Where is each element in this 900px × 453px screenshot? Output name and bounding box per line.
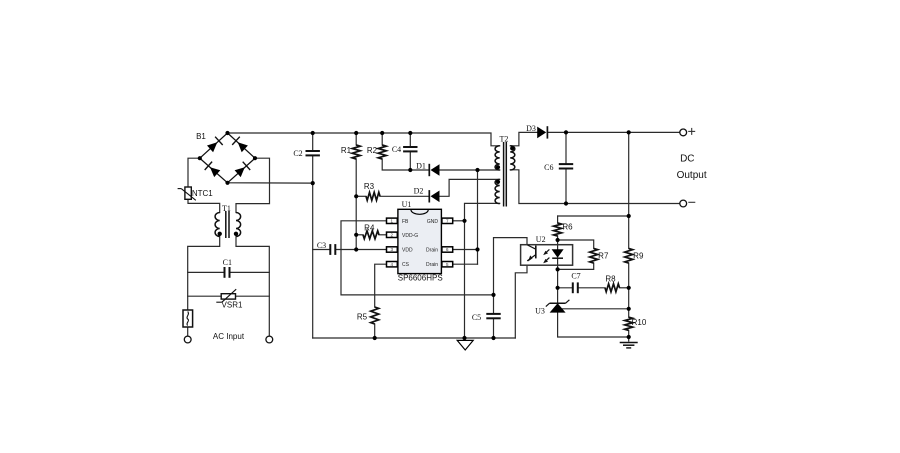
node xyxy=(462,336,466,340)
node xyxy=(311,131,315,135)
transformer T1 xyxy=(215,204,240,238)
wire xyxy=(628,330,630,341)
svg-text:T1: T1 xyxy=(222,204,231,213)
node xyxy=(380,131,384,135)
resistor R3 xyxy=(364,182,380,200)
node xyxy=(564,130,568,134)
wire xyxy=(558,263,594,269)
wire xyxy=(375,264,387,307)
terminal - xyxy=(680,200,687,207)
svg-text:CS: CS xyxy=(402,262,410,268)
resistor R1 xyxy=(341,145,360,159)
wire xyxy=(557,216,559,223)
wire xyxy=(465,203,500,338)
resistor R2 xyxy=(367,145,386,159)
wire xyxy=(188,295,222,297)
svg-text:C2: C2 xyxy=(293,149,302,158)
capacitor C7 xyxy=(571,272,580,294)
capacitor C4 xyxy=(392,145,418,154)
wire xyxy=(409,133,411,147)
terminal AC L xyxy=(184,336,191,343)
diode D1 xyxy=(416,162,439,177)
wire xyxy=(231,271,270,273)
resistor R8 xyxy=(605,275,620,292)
wire xyxy=(628,132,630,248)
wire xyxy=(356,234,363,236)
node xyxy=(627,307,631,311)
node xyxy=(408,131,412,135)
wire xyxy=(558,287,573,289)
wire xyxy=(188,199,220,212)
wire xyxy=(188,158,200,187)
svg-text:VSR1: VSR1 xyxy=(222,301,243,310)
wire xyxy=(515,265,527,338)
ground (secondary) xyxy=(620,343,638,348)
wire xyxy=(380,195,429,197)
minus sign xyxy=(688,201,695,203)
node xyxy=(354,194,358,198)
svg-text:C3: C3 xyxy=(317,241,326,250)
node xyxy=(556,238,560,242)
svg-text:R2: R2 xyxy=(367,146,378,155)
wire xyxy=(510,132,538,145)
svg-text:R9: R9 xyxy=(633,252,644,261)
shunt regulator U3 xyxy=(535,300,569,316)
wire xyxy=(557,258,559,303)
wire xyxy=(335,249,387,251)
svg-text:SP6606HPS: SP6606HPS xyxy=(398,273,443,282)
node xyxy=(556,267,560,271)
svg-text:U1: U1 xyxy=(402,200,412,209)
svg-text:AC Input: AC Input xyxy=(213,332,245,341)
svg-text:Output: Output xyxy=(677,170,707,181)
node xyxy=(311,181,315,185)
svg-text:VDD: VDD xyxy=(402,248,413,254)
wire xyxy=(236,295,270,297)
node xyxy=(475,168,479,172)
wire xyxy=(558,215,629,217)
capacitor C2 xyxy=(293,149,320,158)
wire xyxy=(228,133,500,146)
wire xyxy=(453,263,478,265)
wire xyxy=(440,169,500,171)
node xyxy=(491,336,495,340)
node xyxy=(475,247,479,251)
resistor R7 xyxy=(590,248,609,263)
ground (primary) xyxy=(457,338,473,350)
wire xyxy=(493,318,495,338)
wire xyxy=(228,182,313,184)
svg-text:R1: R1 xyxy=(341,146,352,155)
wire xyxy=(440,179,500,196)
wire xyxy=(494,238,528,295)
diode D2 xyxy=(414,187,440,203)
wire xyxy=(313,249,331,251)
thermistor NTC1 xyxy=(178,187,214,200)
node xyxy=(462,219,466,223)
node xyxy=(627,335,631,339)
terminal + xyxy=(680,129,687,136)
wire xyxy=(355,159,357,250)
svg-text:C7: C7 xyxy=(571,272,580,281)
wire xyxy=(563,308,629,310)
wire xyxy=(188,237,220,311)
svg-text:U3: U3 xyxy=(535,307,545,316)
node xyxy=(627,214,631,218)
wire xyxy=(493,295,495,314)
wire xyxy=(578,287,605,289)
svg-text:D1: D1 xyxy=(416,162,426,171)
svg-text:FB: FB xyxy=(402,219,409,225)
resistor R9 xyxy=(625,248,644,263)
wire xyxy=(236,158,270,212)
svg-text:R8: R8 xyxy=(605,275,616,284)
svg-text:C4: C4 xyxy=(392,145,401,154)
wire xyxy=(547,131,679,133)
terminal AC R xyxy=(266,336,273,343)
wire xyxy=(313,337,516,339)
node xyxy=(354,131,358,135)
svg-text:NTC1: NTC1 xyxy=(192,189,213,198)
svg-text:R7: R7 xyxy=(598,252,609,261)
capacitor C5 xyxy=(472,313,501,322)
wire xyxy=(565,132,567,164)
resistor R4 xyxy=(363,224,379,239)
capacitor C6 xyxy=(544,163,573,172)
wire xyxy=(188,271,225,273)
svg-text:C5: C5 xyxy=(472,313,481,322)
wire xyxy=(341,221,494,295)
svg-text:R6: R6 xyxy=(562,223,573,232)
wire xyxy=(236,237,269,337)
wire xyxy=(187,327,189,336)
node xyxy=(373,336,377,340)
varistor VSR1 xyxy=(216,289,243,309)
svg-text:D3: D3 xyxy=(526,124,536,133)
diode D3 xyxy=(526,124,547,139)
svg-text:C1: C1 xyxy=(223,258,232,267)
svg-text:D2: D2 xyxy=(414,187,424,196)
capacitor C3 xyxy=(317,241,335,255)
node xyxy=(556,286,560,290)
node xyxy=(627,286,631,290)
node xyxy=(354,247,358,251)
capacitor C1 xyxy=(223,258,232,278)
svg-text:R4: R4 xyxy=(364,224,375,233)
fuse xyxy=(183,310,193,327)
resistor R6 xyxy=(554,223,574,237)
svg-text:DC: DC xyxy=(680,154,694,165)
wire xyxy=(374,324,376,338)
node xyxy=(354,233,358,237)
svg-text:GND: GND xyxy=(427,219,439,225)
wire xyxy=(453,220,465,222)
wire xyxy=(558,313,629,337)
wire xyxy=(312,133,314,151)
wire xyxy=(565,169,567,204)
wire xyxy=(510,170,679,204)
node xyxy=(627,130,631,134)
resistor R5 xyxy=(357,307,379,324)
wire xyxy=(620,287,629,289)
node xyxy=(408,168,412,172)
node xyxy=(491,293,495,297)
plus sign xyxy=(688,128,695,135)
wire xyxy=(312,155,314,338)
wire xyxy=(628,263,630,317)
wire xyxy=(558,240,594,248)
svg-text:VDD-G: VDD-G xyxy=(402,233,418,239)
svg-text:R5: R5 xyxy=(357,313,368,322)
op-amp U1 SP6606HPS xyxy=(387,200,453,282)
label DC Output xyxy=(677,154,707,182)
transformer T2 xyxy=(495,135,515,207)
svg-text:B1: B1 xyxy=(196,132,206,141)
svg-text:Drain: Drain xyxy=(426,262,438,268)
wire xyxy=(557,236,559,249)
wire xyxy=(477,170,479,264)
wire xyxy=(409,151,411,170)
wire xyxy=(381,133,383,145)
wire xyxy=(382,159,429,170)
wire xyxy=(356,195,366,197)
svg-text:R3: R3 xyxy=(364,182,375,191)
wire xyxy=(453,249,478,251)
svg-text:R10: R10 xyxy=(632,318,647,327)
wire xyxy=(355,133,357,145)
node xyxy=(564,201,568,205)
bridge rectifier B1 xyxy=(196,131,257,185)
wire xyxy=(379,234,387,236)
svg-text:C6: C6 xyxy=(544,163,553,172)
svg-text:Drain: Drain xyxy=(426,248,438,254)
svg-text:U2: U2 xyxy=(536,235,546,244)
optocoupler U2 xyxy=(521,235,573,265)
resistor R10 xyxy=(625,317,647,330)
svg-text:T2: T2 xyxy=(500,135,509,144)
